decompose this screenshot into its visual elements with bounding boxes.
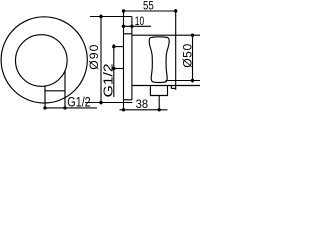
node 38 dim dot left (122, 108, 125, 111)
wire 38 dim line (120, 109, 168, 111)
outlet step box (side view) (150, 86, 167, 96)
node G1/2 dim dot right (front view) (63, 106, 66, 109)
svg-text:38: 38 (136, 97, 149, 111)
wire 38 dim right extension (outlet axis) (158, 96, 160, 110)
node 55 dim dot left (122, 9, 125, 12)
inner circle (front view) (16, 35, 68, 87)
node G1/2 dim dot left (front view) (43, 106, 46, 109)
wall plate top edge (side view) (124, 33, 132, 35)
wire 55 dim line (124, 10, 178, 12)
wire socket left edge (front view) (44, 86, 46, 108)
svg-text:55: 55 (143, 0, 154, 13)
svg-text:G1/2: G1/2 (102, 63, 116, 97)
handle profile (side view) (149, 37, 169, 83)
wire G1/2 side dim line vertical (in-wall thread) (113, 44, 115, 97)
node G1/2 side dim dot top (112, 45, 115, 48)
wire D90 bottom extension (85, 102, 132, 104)
node 10 dim dot left (122, 25, 125, 28)
wire G1/2 side dim bottom extension (114, 68, 124, 70)
wire D90 top extension (90, 16, 132, 18)
wire socket bottom step (front view) (45, 90, 65, 92)
body front bottom notch vertical (side view) (170, 86, 172, 89)
wire 10 dim line (122, 25, 152, 27)
outer circle (escutcheon D90, front view) (1, 17, 87, 103)
wire D50 bottom extension (166, 80, 201, 82)
svg-text:Ø50: Ø50 (180, 43, 194, 68)
node G1/2 side dim dot bottom (112, 67, 115, 70)
body top edge extended to right margin (side view) (132, 34, 200, 36)
wire G1/2 dim line (front view) (45, 107, 97, 109)
body bottom edge extended to right margin (side view) (132, 85, 200, 87)
wire D90 dim line vertical (100, 15, 102, 105)
svg-text:Ø90: Ø90 (87, 43, 101, 69)
svg-text:10: 10 (135, 14, 145, 28)
node D50 dim dot top (191, 34, 194, 37)
wall plate bottom edge (side view) (124, 99, 132, 101)
node 10 dim dot right (130, 25, 133, 28)
wall plate front edge (side view) (131, 17, 133, 100)
node D90 dim dot top (99, 15, 102, 18)
svg-text:G1/2: G1/2 (67, 95, 90, 110)
node 38 dim dot right (158, 108, 161, 111)
wire D50 dim line vertical (192, 35, 194, 82)
wall plate back edge / wall face (side view) (123, 11, 125, 110)
node D50 dim dot bottom (191, 79, 194, 82)
body front edge (side view) (175, 9, 177, 90)
body front bottom notch horizontal (side view) (171, 87, 175, 89)
wire G1/2 side dim top extension (114, 46, 124, 48)
node D90 dim dot bottom (99, 101, 102, 104)
wire socket right edge (front view) (64, 71, 66, 108)
node 55 dim dot right (174, 9, 177, 12)
